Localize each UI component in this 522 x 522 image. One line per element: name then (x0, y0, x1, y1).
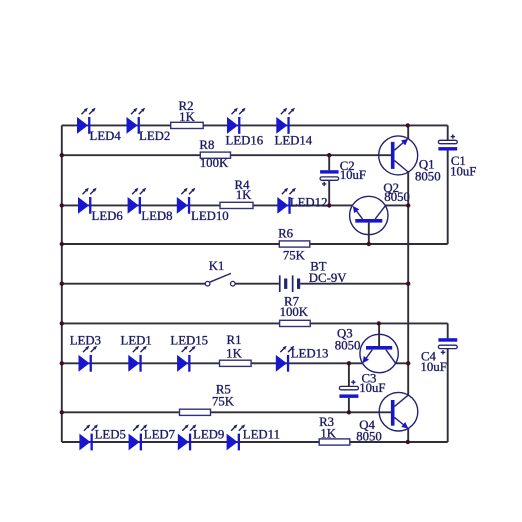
svg-text:LED12: LED12 (290, 195, 328, 209)
resistor R6 (278, 227, 310, 263)
LED LED16 (226, 108, 264, 148)
wire row D (R6 row) (62, 243, 448, 245)
wire row C (LED6 row) (62, 204, 353, 206)
svg-text:8050: 8050 (384, 190, 410, 204)
svg-text:LED7: LED7 (144, 428, 176, 442)
junction node battery rail (406, 282, 410, 286)
transistor Q3 (335, 326, 399, 372)
resistor R2 (171, 99, 204, 129)
wire mid rail lower (407, 428, 409, 442)
capacitor C1 (438, 134, 476, 178)
wire top row (62, 124, 448, 126)
svg-text:1K: 1K (236, 188, 252, 202)
junction node Q4 emitter row I (406, 440, 410, 444)
junction node C2 bottom (327, 203, 331, 207)
svg-text:75K: 75K (212, 395, 235, 409)
transistor Q2 (350, 181, 410, 235)
svg-text:LED14: LED14 (275, 133, 313, 147)
resistor R3 (319, 415, 350, 445)
wire mid rail main (407, 172, 409, 395)
svg-text:100K: 100K (200, 156, 229, 170)
wire C4 bottom to row I (447, 349, 449, 442)
LED LED9 (178, 424, 224, 450)
wire Q2 base drop (368, 223, 370, 244)
wire K1 to battery (235, 283, 279, 285)
LED LED5 (79, 424, 125, 450)
svg-text:LED1: LED1 (121, 333, 152, 347)
svg-text:DC-9V: DC-9V (309, 271, 347, 285)
svg-text:LED8: LED8 (141, 209, 172, 223)
wire row H (R5 row) (62, 411, 391, 413)
LED LED7 (129, 424, 176, 450)
junction node Q2 base row D (367, 242, 371, 246)
svg-text:1K: 1K (226, 347, 242, 361)
junction node row D left (60, 242, 64, 246)
LED LED13 (276, 346, 329, 372)
capacitor C3 (339, 371, 385, 398)
resistor R5 (180, 382, 235, 415)
svg-text:8050: 8050 (356, 430, 382, 444)
wire row I (bottom row) (62, 441, 448, 443)
svg-text:LED6: LED6 (92, 209, 124, 223)
svg-text:LED5: LED5 (95, 428, 126, 442)
transistor Q1 (379, 136, 441, 184)
junction node row B left (60, 153, 64, 157)
junction node row H left (60, 410, 64, 414)
wire row E left (62, 283, 206, 285)
battery BT DC-9V (279, 260, 347, 292)
resistor R7 (280, 295, 311, 327)
junction node C2 top (327, 153, 331, 157)
svg-text:10uF: 10uF (421, 360, 447, 374)
wire C3 bottom drop (348, 398, 350, 412)
LED LED3 (70, 333, 101, 371)
svg-text:LED4: LED4 (90, 129, 122, 143)
LED LED14 (275, 108, 313, 148)
svg-text:10uF: 10uF (359, 381, 385, 395)
capacitor C4 (421, 338, 458, 374)
junction node C3 bottom row H (347, 410, 351, 414)
LED LED11 (227, 424, 280, 450)
wire Q2 collector to mid rail (385, 204, 408, 206)
wire row F (R7 row) (62, 322, 448, 324)
junction node Q3 collector rail (406, 361, 410, 365)
wire row B (R8 row) (62, 154, 391, 156)
switch K1 (205, 259, 235, 286)
svg-text:K1: K1 (209, 259, 225, 273)
svg-text:LED10: LED10 (191, 209, 229, 223)
LED LED15 (170, 333, 208, 371)
svg-text:10uF: 10uF (450, 165, 476, 179)
junction node row E left (60, 282, 64, 286)
transistor Q4 (356, 392, 418, 443)
capacitor C2 (320, 159, 366, 186)
wire C3 top drop (348, 363, 350, 386)
svg-text:LED11: LED11 (243, 428, 280, 442)
svg-text:LED13: LED13 (291, 347, 329, 361)
svg-text:LED9: LED9 (193, 428, 224, 442)
wire C4 top drop (447, 323, 449, 338)
junction node Q3 base row F (377, 321, 381, 325)
resistor R1 (220, 333, 252, 367)
wire battery to mid rail (300, 283, 408, 285)
svg-text:LED15: LED15 (170, 333, 208, 347)
svg-text:LED2: LED2 (139, 129, 170, 143)
svg-text:LED16: LED16 (226, 133, 264, 147)
junction node row F left (60, 321, 64, 325)
wire C1 bottom to row D (447, 150, 449, 244)
LED LED6 (78, 188, 123, 223)
resistor R8 (199, 138, 230, 170)
junction node top row / Q1 collector (406, 123, 410, 127)
resistor R4 (220, 178, 253, 209)
svg-text:75K: 75K (283, 249, 306, 263)
wire mid rail upper (407, 125, 409, 138)
wire Q3 base up (378, 323, 380, 346)
LED LED1 (121, 333, 152, 371)
wire C2 top drop (328, 155, 330, 170)
svg-text:1K: 1K (179, 110, 195, 124)
junction node row C left (60, 203, 64, 207)
LED LED8 (128, 188, 173, 223)
wire C1 top drop (447, 125, 449, 140)
wire row G (LED3 row) (62, 362, 363, 364)
wire left rail (61, 125, 63, 442)
LED LED2 (127, 108, 171, 143)
LED LED12 (277, 188, 327, 214)
svg-text:R8: R8 (199, 138, 214, 152)
svg-text:100K: 100K (280, 305, 309, 319)
wire C2 bottom drop (328, 180, 330, 205)
junction node row G left (60, 361, 64, 365)
svg-text:1K: 1K (320, 427, 336, 441)
svg-text:LED3: LED3 (70, 333, 101, 347)
junction node Q2 collector rail (406, 203, 410, 207)
LED LED10 (177, 188, 229, 223)
svg-text:10uF: 10uF (340, 168, 366, 182)
svg-text:8050: 8050 (415, 170, 441, 184)
LED LED4 (77, 108, 121, 143)
svg-text:8050: 8050 (335, 338, 361, 352)
wire Q3 collector to mid rail (396, 362, 409, 364)
svg-text:R6: R6 (278, 227, 294, 241)
svg-text:R1: R1 (227, 333, 242, 347)
junction node C3 top row G (347, 361, 351, 365)
